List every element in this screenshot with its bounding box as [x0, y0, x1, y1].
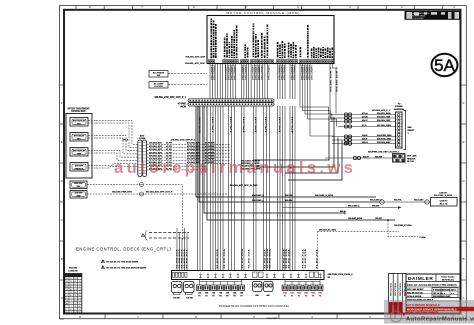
svg-text:558-PWR_ATD_DEF_LN_HTR_1: 558-PWR_ATD_DEF_LN_HTR_1	[368, 150, 400, 153]
svg-text:478-SIG_ATD_DPF_P_1: 478-SIG_ATD_DPF_P_1	[171, 139, 196, 142]
svg-text:31: 31	[79, 309, 81, 311]
svg-text:904-YEL: 904-YEL	[394, 199, 403, 202]
svg-text:236-G: 236-G	[362, 142, 368, 144]
PDM fuse bank 1	[197, 280, 245, 291]
svg-text:12: 12	[74, 309, 76, 311]
svg-text:478-GN: 478-GN	[279, 116, 282, 133]
svg-text:F1: F1	[284, 295, 286, 297]
svg-text:FRAME: FRAME	[395, 105, 403, 108]
after treatment device box	[66, 108, 92, 179]
CAN bus wires to engine harness	[252, 192, 457, 239]
svg-text:F6: F6	[319, 295, 321, 297]
svg-text:SW: SW	[157, 75, 160, 77]
svg-text:19: 19	[79, 281, 81, 283]
svg-text:ATD INLET: ATD INLET	[74, 135, 85, 138]
svg-text:478-GN: 478-GN	[243, 116, 246, 133]
svg-text:478-GNWH: 478-GNWH	[228, 65, 231, 80]
svg-text:SCALE NONE: SCALE NONE	[407, 295, 422, 298]
svg-text:478-GNWH: 478-GNWH	[261, 65, 264, 80]
svg-text:ATD: ATD	[140, 134, 145, 137]
svg-text:ATD DPF: ATD DPF	[75, 165, 84, 168]
svg-text:478-SIG_ATD: 478-SIG_ATD	[149, 145, 163, 148]
svg-text:B8: B8	[74, 278, 76, 280]
svg-text:916-SIG_EGR_T: 916-SIG_EGR_T	[337, 66, 339, 92]
svg-text:HEATER: HEATER	[407, 157, 416, 160]
svg-text:478-GN: 478-GN	[291, 116, 294, 133]
splice row continuation	[146, 185, 228, 241]
wire number labels at MCM pin exits	[211, 65, 339, 92]
svg-text:2: 2	[200, 273, 201, 275]
svg-text:438-PWR_PDM_FUSE_5: 438-PWR_PDM_FUSE_5	[328, 273, 354, 276]
svg-text:478-GNWH: 478-GNWH	[213, 65, 216, 80]
svg-text:478-SIG_ATD: 478-SIG_ATD	[149, 155, 163, 158]
svg-text:234-E: 234-E	[362, 134, 368, 137]
svg-text:CONN NO: CONN NO	[68, 270, 78, 272]
svg-text:904-YEL: 904-YEL	[285, 194, 294, 197]
svg-text:AC COMP: AC COMP	[154, 83, 164, 86]
svg-text:REVDES: REVDES	[395, 282, 397, 296]
svg-text:957-SIG_ATD_DPF_OUT_P: 957-SIG_ATD_DPF_OUT_P	[146, 191, 173, 194]
wire bundle below inline connector	[198, 106, 296, 271]
wire number labels on vertical wires	[176, 116, 319, 268]
svg-text:CONN: CONN	[139, 138, 146, 140]
svg-text:CLUTCH: CLUTCH	[154, 86, 163, 88]
svg-text:904-CAN1_H_MCM: 904-CAN1_H_MCM	[315, 194, 333, 197]
svg-text:DEVICE BOX: DEVICE BOX	[71, 111, 86, 113]
svg-text:A: A	[462, 296, 464, 300]
svg-text:81-RD 2GA: 81-RD 2GA	[241, 248, 244, 268]
svg-text:2: 2	[222, 273, 223, 275]
svg-text:E: E	[462, 140, 464, 144]
title block	[406, 274, 460, 313]
svg-text:HARNESS: HARNESS	[394, 108, 405, 111]
svg-text:POWERTRAIN (POWER DISTRIBUTION: POWERTRAIN (POWER DISTRIBUTION MODULE)	[219, 304, 289, 308]
svg-text:234-PWR_SNS: 234-PWR_SNS	[377, 134, 392, 137]
svg-text:REVDES: REVDES	[400, 282, 402, 296]
svg-text:2: 2	[290, 273, 291, 275]
svg-text:81-RD 2GA: 81-RD 2GA	[269, 248, 272, 268]
svg-text:SHEET: SHEET	[408, 130, 416, 132]
svg-text:C2: C2	[66, 298, 68, 300]
svg-text:C2: C2	[66, 284, 68, 286]
svg-text:919-SIG_ATD_DOC: 919-SIG_ATD_DOC	[185, 62, 205, 65]
svg-text:ATD DOC: ATD DOC	[74, 182, 83, 185]
svg-text:ATD OUTLET: ATD OUTLET	[73, 120, 86, 123]
svg-text:478-SIG_ATD: 478-SIG_ATD	[149, 148, 163, 151]
svg-text:478-GNWH: 478-GNWH	[245, 65, 248, 80]
svg-text:MOTOR CONTROL MODULE (MCM): MOTOR CONTROL MODULE (MCM)	[226, 11, 300, 15]
svg-text:B8: B8	[78, 312, 80, 314]
svg-text:478-SIG_ATD_DPF_OUT_P_1: 478-SIG_ATD_DPF_OUT_P_1	[154, 96, 186, 99]
svg-text:2: 2	[245, 273, 246, 275]
svg-text:NT XX XX TO THE XXXX SENS: NT XX XX TO THE XXXX SENS	[107, 261, 139, 263]
right strip labels	[394, 104, 415, 136]
svg-text:2: 2	[305, 273, 306, 275]
svg-text:TO: TO	[398, 104, 401, 106]
brace note with triangle	[142, 231, 190, 241]
svg-text:SEE: SEE	[408, 127, 413, 129]
svg-text:235-F: 235-F	[362, 138, 368, 140]
svg-text:918-SIG_ATD_SCR_IN_TMP: 918-SIG_ATD_SCR_IN_TMP	[230, 184, 258, 187]
svg-text:ATD DPF: ATD DPF	[74, 192, 83, 195]
svg-text:RLY B1: RLY B1	[407, 161, 415, 163]
svg-text:905-CAN1_L: 905-CAN1_L	[348, 204, 361, 207]
svg-text:19: 19	[79, 292, 81, 294]
svg-text:235-RTN_SNS: 235-RTN_SNS	[377, 138, 391, 140]
lower right labels	[353, 150, 417, 163]
svg-text:47-PKWH: 47-PKWH	[205, 155, 215, 158]
dashed branch wire 499	[318, 229, 400, 271]
svg-text:C2: C2	[74, 284, 76, 286]
revision/patent info bar	[405, 11, 461, 20]
right connector rows	[330, 109, 396, 146]
svg-text:7: 7	[79, 303, 80, 305]
svg-text:47-PK: 47-PK	[166, 142, 172, 145]
sensor B5: DPF press	[70, 181, 87, 189]
svg-text:81-RD 2GA: 81-RD 2GA	[223, 248, 226, 268]
sensor B6: DOC tmp	[70, 191, 87, 199]
svg-text:7: 7	[66, 309, 67, 311]
svg-text:904-CAN1_H: 904-CAN1_H	[252, 194, 265, 197]
svg-text:57-D: 57-D	[362, 125, 367, 127]
svg-text:440: 440	[266, 294, 269, 297]
svg-text:F5: F5	[226, 295, 228, 297]
sensor B3: ATD OUTLET TMP	[70, 148, 88, 157]
sensor B2: ATD INLET NOx	[70, 133, 88, 142]
svg-text:WORKSHOP SERVICE REPAIR MANUAL: WORKSHOP SERVICE REPAIR MANUALS	[407, 308, 457, 311]
svg-text:A4: A4	[74, 291, 76, 294]
svg-text:A4: A4	[66, 302, 68, 305]
svg-text:31: 31	[70, 287, 72, 289]
sensor signal rows with labels	[122, 139, 230, 171]
svg-text:12: 12	[74, 298, 76, 300]
svg-text:F6: F6	[233, 295, 235, 297]
svg-text:2: 2	[283, 273, 284, 275]
svg-text:AUTO REPAIR MANUALS: AUTO REPAIR MANUALS	[406, 303, 440, 307]
svg-text:6: 6	[102, 267, 103, 269]
svg-text:478-GNWH: 478-GNWH	[283, 65, 286, 80]
svg-text:A4: A4	[74, 311, 76, 314]
svg-text:478-SIG_ATD: 478-SIG_ATD	[187, 151, 201, 154]
svg-text:A4: A4	[66, 311, 68, 314]
svg-text:478-SIG_ATD: 478-SIG_ATD	[187, 142, 201, 145]
svg-text:A/C PRESS: A/C PRESS	[153, 72, 165, 75]
svg-text:905-GN: 905-GN	[285, 200, 293, 202]
svg-text:916-SIG_EGR_T: 916-SIG_EGR_T	[331, 66, 333, 92]
svg-text:7: 7	[79, 287, 80, 289]
svg-text:168-PWR_ST 8GA: 168-PWR_ST 8GA	[394, 224, 412, 227]
connector reference table	[65, 267, 82, 314]
svg-text:WIRING DIAGRAMS OWNERS: WIRING DIAGRAMS OWNERS	[406, 312, 439, 315]
svg-text:2: 2	[207, 273, 208, 275]
long routing wires to right side	[196, 106, 395, 220]
svg-text:478-GNWH: 478-GNWH	[225, 65, 228, 80]
svg-text:558-H: 558-H	[363, 156, 369, 158]
power distribution module (PDM)	[172, 271, 354, 280]
svg-text:5 8GA: 5 8GA	[420, 236, 427, 239]
svg-text:Solar Trucks: Solar Trucks	[441, 277, 455, 279]
svg-text:168 RD: 168 RD	[173, 297, 180, 299]
svg-text:C2: C2	[78, 298, 80, 300]
svg-text:19: 19	[74, 303, 76, 305]
svg-text:2: 2	[266, 273, 267, 275]
svg-text:7: 7	[71, 301, 72, 303]
svg-text:A: A	[61, 296, 63, 300]
svg-text:919-SIG_TRB: 919-SIG_TRB	[377, 116, 391, 118]
svg-text:F2: F2	[205, 295, 207, 297]
MCM pin numbers	[209, 60, 333, 62]
svg-text:438: 438	[255, 294, 258, 297]
svg-text:C2: C2	[78, 301, 80, 303]
bottom-right watermark block	[384, 300, 474, 324]
svg-text:47-PK: 47-PK	[166, 155, 172, 158]
svg-text:81-RD 2GA: 81-RD 2GA	[248, 248, 251, 268]
svg-text:2: 2	[237, 273, 238, 275]
svg-text:19: 19	[74, 289, 76, 291]
svg-text:478-GN: 478-GN	[230, 116, 233, 133]
svg-text:2: 2	[215, 273, 216, 275]
relay K2 box	[149, 82, 207, 89]
svg-text:2: 2	[274, 273, 275, 275]
svg-text:31: 31	[74, 306, 76, 308]
svg-text:916-C: 916-C	[362, 120, 368, 122]
svg-text:DDC S60 EPA07: DDC S60 EPA07	[407, 288, 424, 291]
svg-text:478-GNWH: 478-GNWH	[252, 65, 255, 80]
svg-text:19: 19	[66, 301, 68, 303]
svg-text:236-SIG_MAP: 236-SIG_MAP	[377, 141, 391, 144]
svg-text:905-B: 905-B	[340, 211, 346, 213]
svg-text:31: 31	[70, 309, 72, 311]
svg-text:C2: C2	[70, 292, 72, 294]
svg-text:7: 7	[71, 306, 72, 308]
svg-text:916-SIG_TMP: 916-SIG_TMP	[377, 120, 391, 122]
svg-text:DAIMLER: DAIMLER	[408, 276, 433, 282]
svg-text:478-SIG_ATD: 478-SIG_ATD	[187, 145, 201, 148]
svg-text:F7: F7	[240, 295, 242, 297]
PDM fuse tick labels	[200, 273, 321, 275]
title block left extension columns	[389, 274, 407, 314]
svg-text:478-GNWH: 478-GNWH	[268, 65, 271, 80]
svg-text:19: 19	[66, 289, 68, 291]
svg-text:F3: F3	[298, 295, 300, 297]
svg-text:057-SIG_FUEL: 057-SIG_FUEL	[377, 125, 392, 127]
svg-text:AutoRepairManuals.ws: AutoRepairManuals.ws	[406, 317, 474, 323]
MCM pin signal name labels	[211, 19, 332, 59]
svg-text:47-PK: 47-PK	[166, 145, 172, 148]
svg-text:904-CAN1_H_MCM: 904-CAN1_H_MCM	[434, 194, 452, 197]
svg-text:ENG GP-ACCELERATOR CTRL-DDEC6: ENG GP-ACCELERATOR CTRL-DDEC6	[407, 283, 457, 287]
svg-text:478-GNWH: 478-GNWH	[231, 65, 234, 80]
svg-text:81-RD 2GA: 81-RD 2GA	[216, 248, 219, 268]
svg-text:478-SIG_ATD: 478-SIG_ATD	[187, 155, 201, 158]
MCM connector pin boxes	[209, 60, 334, 64]
svg-text:478-A: 478-A	[362, 112, 368, 115]
svg-text:31: 31	[74, 295, 76, 297]
svg-text:478-GN: 478-GN	[265, 116, 268, 133]
inline connector J2 (54-pin)	[188, 99, 274, 106]
inline connector labels	[154, 96, 186, 109]
wires into PDM left end	[177, 228, 187, 271]
svg-text:ENGINE CONTROL, DDEC6 (ENG_CRT: ENGINE CONTROL, DDEC6 (ENG_CRTL)	[76, 247, 171, 252]
svg-text:918-SIG_ATD_SCR: 918-SIG_ATD_SCR	[185, 56, 205, 59]
PDM fuse bank 2	[282, 280, 323, 291]
sensor B4: ATD DPF PRESS A	[70, 163, 88, 172]
svg-text:7: 7	[79, 278, 80, 280]
svg-text:AFTER TREATMENT: AFTER TREATMENT	[67, 108, 90, 111]
svg-text:478-SIG_ATD: 478-SIG_ATD	[149, 142, 163, 145]
svg-text:31: 31	[70, 278, 72, 280]
svg-text:31: 31	[66, 281, 68, 283]
relay K1 box	[149, 71, 207, 78]
svg-text:47-PKWH: 47-PKWH	[205, 142, 215, 145]
svg-text:x-xx-xxxxx: x-xx-xxxxx	[266, 317, 278, 319]
svg-text:168-RD: 168-RD	[375, 218, 382, 220]
svg-text:PRESS A: PRESS A	[75, 168, 84, 171]
svg-text:123-000: 123-000	[442, 296, 450, 298]
sheet reference circle 5A	[432, 54, 458, 76]
svg-text:E: E	[61, 140, 63, 144]
svg-text:478-A: 478-A	[122, 139, 128, 142]
svg-text:autorepairmanuals.ws: autorepairmanuals.ws	[114, 159, 356, 177]
svg-text:478-SIG_ATD_P_1: 478-SIG_ATD_P_1	[372, 109, 391, 112]
svg-text:31: 31	[74, 281, 76, 283]
svg-text:47-PK: 47-PK	[166, 148, 172, 151]
svg-text:F: F	[463, 101, 465, 105]
sensor B1: ATD OUTLET NOx	[70, 118, 88, 127]
svg-text:C2: C2	[66, 295, 68, 297]
svg-text:81-RD 2GA: 81-RD 2GA	[304, 248, 307, 268]
svg-text:904-CAN1_H: 904-CAN1_H	[370, 199, 383, 202]
svg-text:7: 7	[71, 298, 72, 300]
svg-text:B8: B8	[78, 295, 80, 297]
svg-text:918-SIG_EGR: 918-SIG_EGR	[377, 113, 391, 115]
svg-text:7: 7	[71, 303, 72, 305]
svg-text:7: 7	[75, 287, 76, 289]
svg-text:905-GN: 905-GN	[372, 205, 380, 207]
svg-text:A4: A4	[74, 300, 76, 303]
svg-text:478-SIG_ATD: 478-SIG_ATD	[187, 148, 201, 151]
svg-text:2: 2	[320, 273, 321, 275]
svg-text:478-GNWH: 478-GNWH	[311, 65, 314, 80]
mid splice rows	[112, 183, 258, 197]
svg-text:B2.1 T4: B2.1 T4	[440, 203, 448, 206]
op module U1: MOTOR CONTROL MODULE (MCM)	[207, 11, 334, 64]
wire bundle from MCM to lower modules	[210, 63, 337, 143]
svg-text:7: 7	[66, 292, 67, 294]
svg-text:F2: F2	[291, 295, 293, 297]
svg-text:F5: F5	[312, 295, 314, 297]
svg-text:81-RD 2GA: 81-RD 2GA	[316, 248, 319, 268]
svg-text:TMP: TMP	[77, 154, 82, 156]
svg-text:169-ATD_PWR_RTN: 169-ATD_PWR_RTN	[112, 191, 132, 194]
svg-text:31: 31	[70, 295, 72, 297]
svg-text:XB4 XB4: XB4 XB4	[69, 267, 78, 270]
svg-text:MCM: MCM	[181, 107, 187, 109]
svg-text:B8: B8	[66, 278, 68, 280]
svg-text:478-SIG_ATD: 478-SIG_ATD	[149, 151, 163, 154]
right connector strip J5	[396, 111, 406, 150]
svg-text:479-B: 479-B	[362, 115, 368, 118]
svg-text:47-PK: 47-PK	[166, 151, 172, 154]
svg-text:47-PKWH: 47-PKWH	[205, 145, 215, 148]
svg-text:2: 2	[298, 273, 299, 275]
svg-text:499-SIG_ST_NEU: 499-SIG_ST_NEU	[319, 229, 337, 232]
svg-text:478-GNWH: 478-GNWH	[255, 65, 258, 80]
PDM output connector pair (mid)	[253, 282, 274, 292]
warning note rows with triangles	[102, 260, 147, 270]
svg-text:47-PKWH: 47-PKWH	[205, 148, 215, 151]
svg-text:B: B	[462, 257, 464, 261]
svg-text:REL 06 OCT 09: REL 06 OCT 09	[407, 292, 423, 294]
title block text	[407, 276, 457, 302]
svg-text:478-GNWH: 478-GNWH	[234, 65, 237, 80]
wire name note block	[241, 160, 261, 171]
PDM output connector pair (left)	[172, 282, 195, 295]
svg-text:12: 12	[79, 289, 81, 291]
bulkhead connector J3 (vertical)	[138, 140, 147, 177]
svg-text:ATD OUTLET: ATD OUTLET	[73, 150, 86, 153]
svg-text:478-GNWH: 478-GNWH	[242, 65, 245, 80]
svg-text:478-GN: 478-GN	[255, 116, 258, 133]
svg-text:G06-552: G06-552	[442, 290, 451, 292]
lower right connector X4	[325, 154, 405, 163]
sensor harness dashed wires	[87, 121, 205, 195]
PDM fuse elements	[173, 272, 322, 278]
svg-text:168-BAT_MCM: 168-BAT_MCM	[348, 217, 362, 220]
svg-text:904-CAN1: 904-CAN1	[414, 199, 424, 202]
svg-text:12: 12	[70, 312, 72, 314]
svg-text:DEF LINE: DEF LINE	[407, 156, 417, 158]
svg-text:19: 19	[70, 281, 72, 283]
svg-text:CAB I/O: CAB I/O	[440, 200, 448, 203]
svg-text:7: 7	[66, 306, 67, 308]
svg-text:F3: F3	[212, 295, 214, 297]
svg-text:REVDES: REVDES	[390, 282, 392, 296]
svg-text:168 RD: 168 RD	[186, 297, 193, 299]
svg-text:47-PNK: 47-PNK	[178, 103, 187, 106]
svg-text:19: 19	[79, 284, 81, 286]
connector J3 label	[139, 134, 146, 140]
svg-text:B8: B8	[66, 287, 68, 289]
svg-text:2: 2	[230, 273, 231, 275]
svg-text:B8: B8	[78, 306, 80, 308]
svg-text:C2: C2	[70, 284, 72, 286]
svg-text:F1: F1	[198, 295, 200, 297]
svg-text:81-RD 2GA: 81-RD 2GA	[288, 248, 291, 268]
svg-text:NT XX XX TO THE XXX ANTLER SEN: NT XX XX TO THE XXX ANTLER SENS	[107, 266, 147, 269]
svg-text:478-GNWH: 478-GNWH	[258, 65, 261, 80]
svg-text:47-PKWH: 47-PKWH	[205, 151, 215, 154]
svg-text:5: 5	[102, 261, 103, 263]
svg-text:905-CAN1_L: 905-CAN1_L	[252, 199, 265, 202]
svg-text:478-GN: 478-GN	[212, 116, 215, 133]
svg-text:5A: 5A	[434, 56, 455, 75]
svg-text:F: F	[61, 101, 63, 105]
wire labels left of MCM	[185, 56, 205, 65]
svg-text:5675 Works: 5675 Works	[442, 280, 455, 282]
svg-text:A4: A4	[70, 288, 72, 291]
svg-text:478-GNWH: 478-GNWH	[293, 65, 296, 80]
svg-text:CAB I/O: CAB I/O	[439, 192, 447, 195]
svg-text:B: B	[61, 257, 63, 261]
svg-text:558-RD: 558-RD	[375, 156, 383, 158]
